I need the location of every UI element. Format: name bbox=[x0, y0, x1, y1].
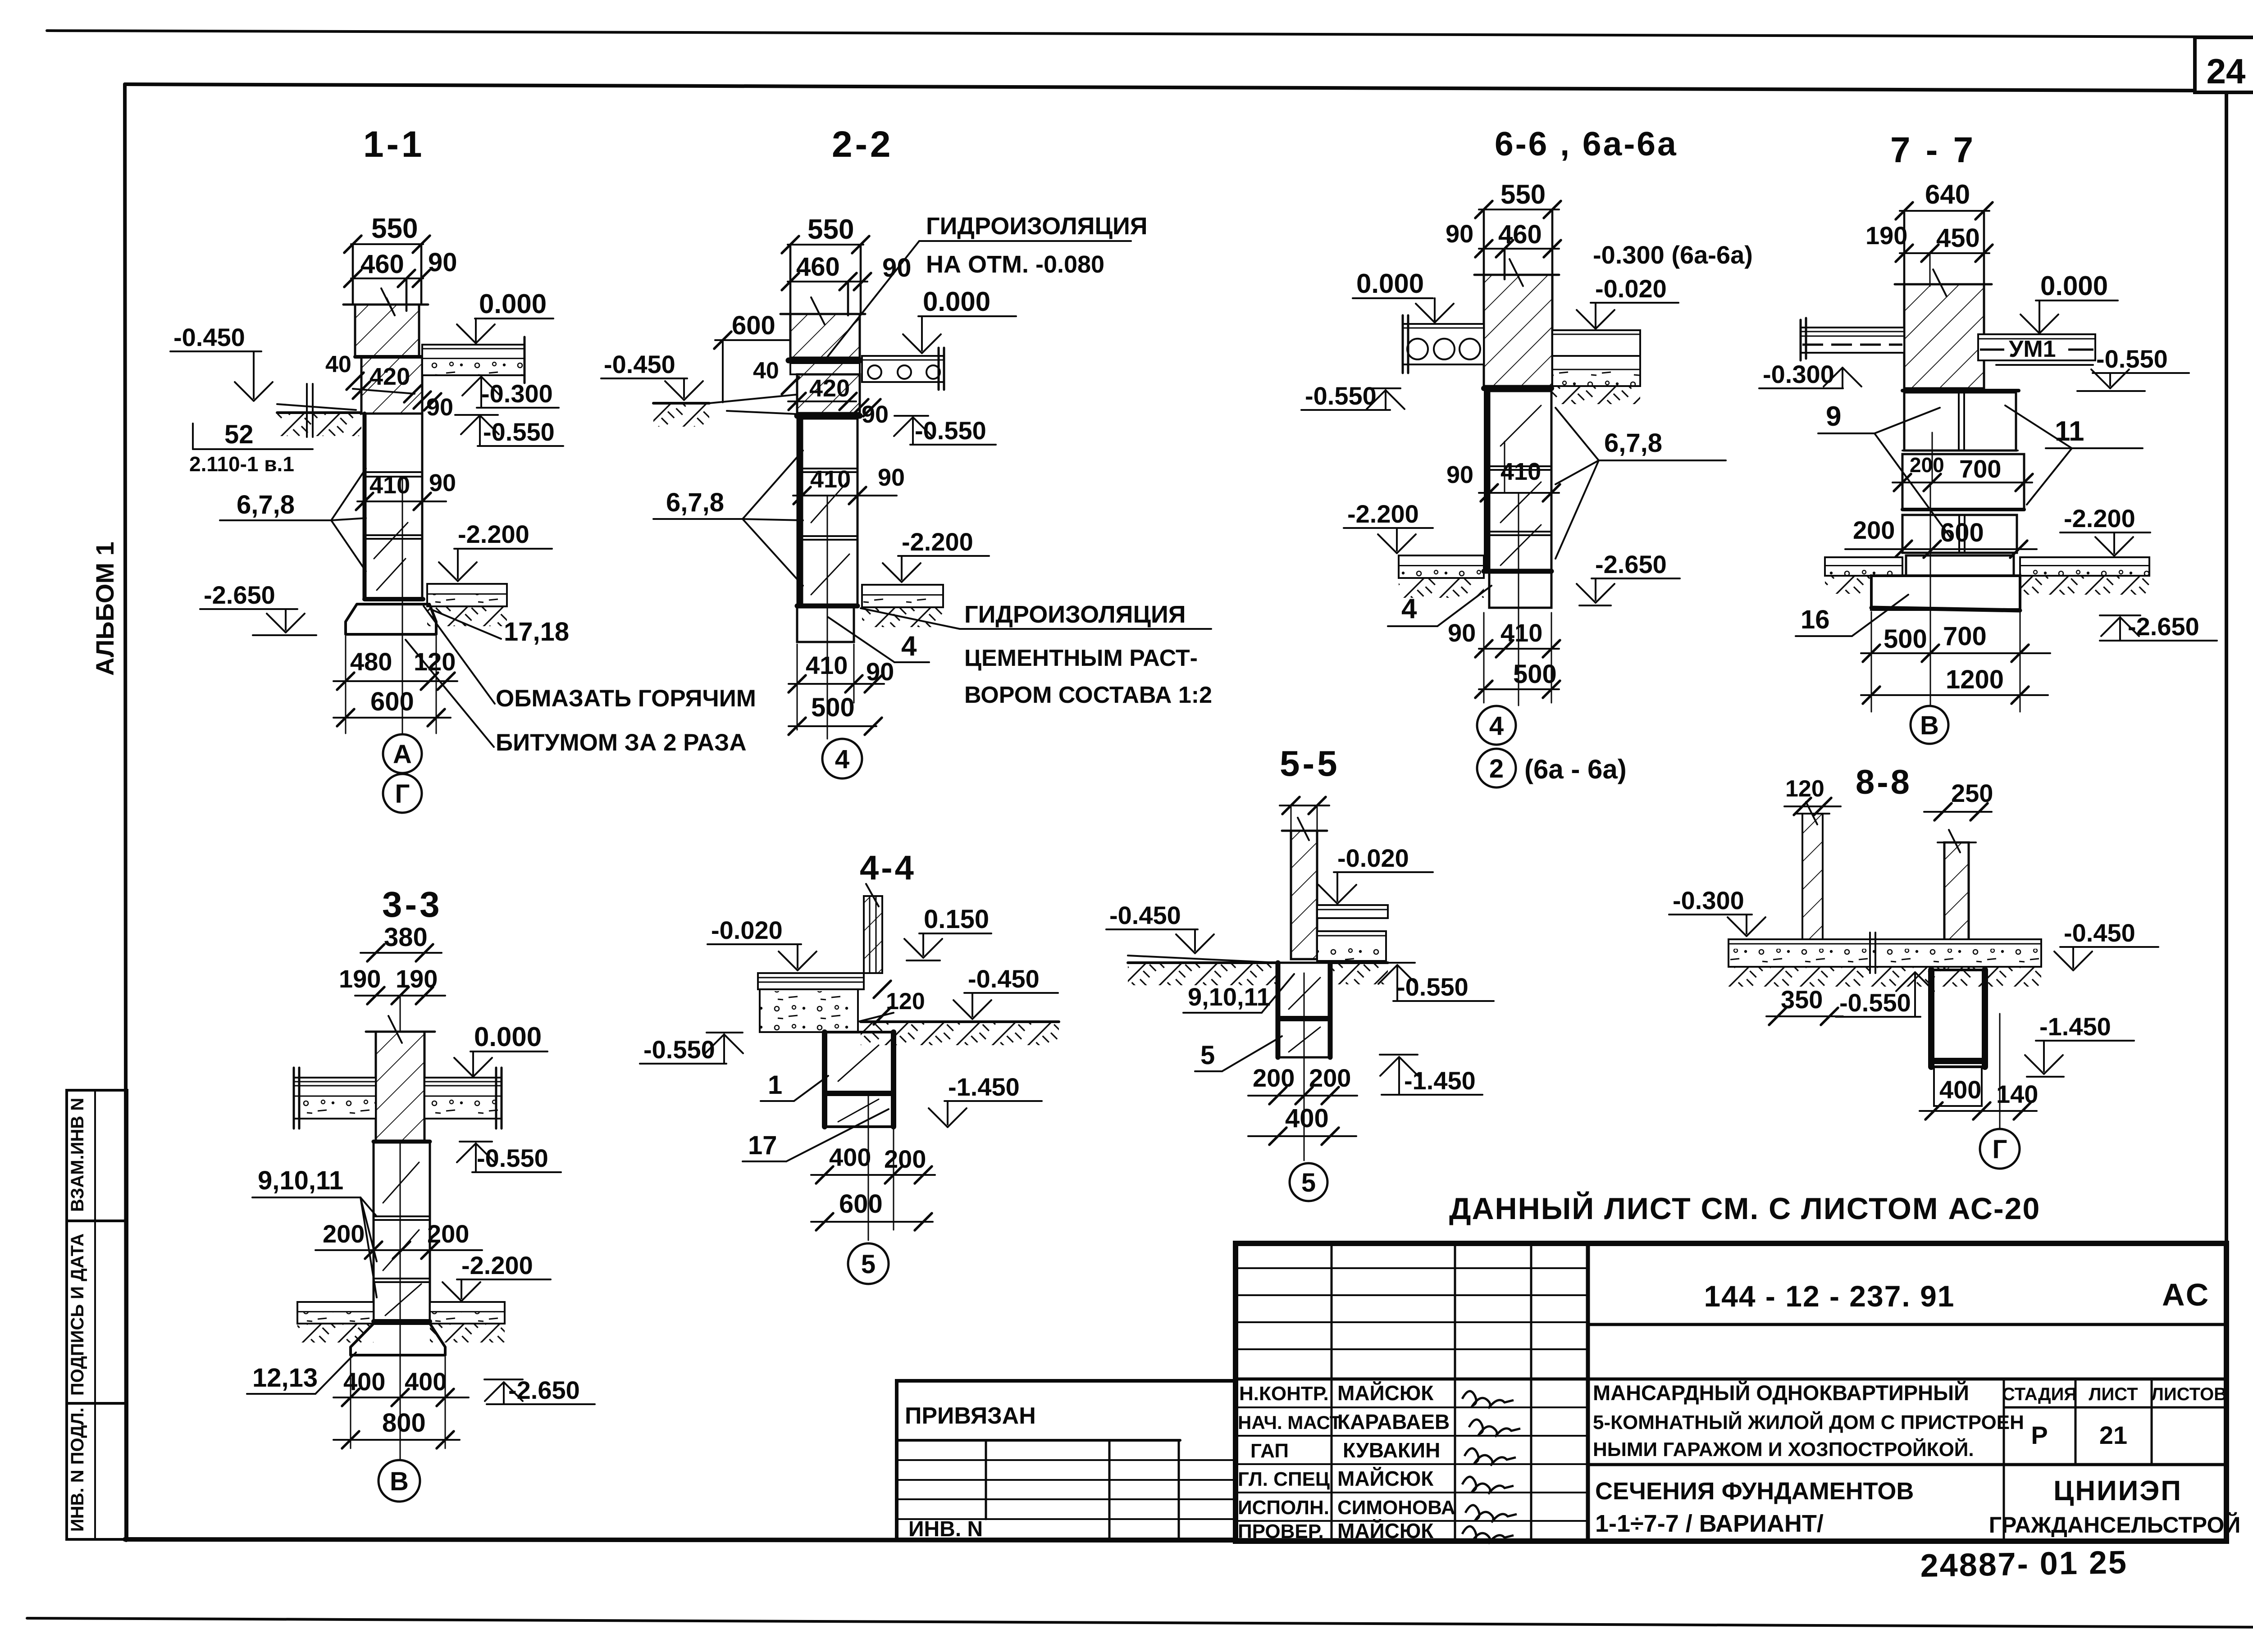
svg-text:190: 190 bbox=[1865, 221, 1907, 250]
svg-text:550: 550 bbox=[371, 213, 418, 244]
svg-text:АЛЬБОМ 1: АЛЬБОМ 1 bbox=[91, 542, 119, 676]
1-1 footing bbox=[346, 599, 436, 634]
1-1 basement floor slab right bbox=[427, 584, 507, 626]
svg-text:600: 600 bbox=[839, 1189, 883, 1219]
5-5 label 9,10,11 bbox=[1183, 974, 1294, 1013]
2-2 level -0.550 bbox=[894, 416, 996, 445]
7-7 precast slab left bbox=[1801, 318, 1904, 360]
title block project name bbox=[1593, 1381, 2024, 1461]
svg-text:ИНВ. N: ИНВ. N bbox=[908, 1517, 983, 1541]
svg-text:40: 40 bbox=[753, 358, 779, 384]
2-2 level -0.450 bbox=[601, 350, 703, 400]
4-4 dim 400 200 bbox=[811, 1129, 935, 1230]
sheet top edge line bbox=[47, 31, 2253, 37]
svg-text:СИМОНОВА: СИМОНОВА bbox=[1337, 1497, 1455, 1519]
6-6 wall bbox=[1474, 259, 1559, 386]
7-7 dim 500 700 bbox=[1861, 612, 2050, 712]
svg-text:-2.200: -2.200 bbox=[2064, 504, 2135, 532]
6-6 dim 90 410 mid bbox=[1446, 441, 1560, 501]
4-4 dim 120 bbox=[874, 981, 925, 1024]
8-8 dim 400 140 bbox=[1920, 1075, 2038, 1120]
svg-text:0.150: 0.150 bbox=[924, 905, 989, 934]
5-5 level -1.450 bbox=[1380, 1055, 1482, 1095]
2-2 basement floor slab right bbox=[862, 585, 943, 627]
svg-text:1-1÷7-7 / ВАРИАНТ/: 1-1÷7-7 / ВАРИАНТ/ bbox=[1595, 1510, 1824, 1537]
svg-text:550: 550 bbox=[807, 214, 854, 245]
svg-text:21: 21 bbox=[2099, 1421, 2127, 1449]
3-3 axis line bbox=[400, 1142, 401, 1460]
7-7 level -2.200 bbox=[2060, 504, 2150, 556]
6-6 dim 90 410 bottom bbox=[1448, 613, 1560, 703]
7-7 level -0.300 bbox=[1759, 360, 1861, 388]
2-2 dim 460 90 bbox=[782, 252, 912, 315]
svg-text:700: 700 bbox=[1959, 455, 2001, 483]
svg-text:МАЙСЮК: МАЙСЮК bbox=[1337, 1519, 1434, 1543]
svg-text:1200: 1200 bbox=[1946, 665, 2004, 694]
svg-text:120: 120 bbox=[886, 988, 925, 1015]
4-4 ground mid notch bbox=[858, 1013, 894, 1022]
svg-text:-0.020: -0.020 bbox=[1337, 844, 1409, 872]
title block right horizontals bbox=[1588, 1324, 2226, 1465]
svg-text:6,7,8: 6,7,8 bbox=[666, 488, 724, 517]
svg-text:ИСПОЛН.: ИСПОЛН. bbox=[1238, 1497, 1329, 1519]
svg-text:0.000: 0.000 bbox=[923, 287, 990, 317]
svg-text:-0.550: -0.550 bbox=[483, 418, 555, 446]
section title 4-4 bbox=[860, 849, 916, 887]
3-3 footing bbox=[351, 1321, 445, 1355]
8-8 dim 250 bbox=[1924, 779, 1993, 820]
svg-text:(6а - 6а): (6а - 6а) bbox=[1524, 754, 1627, 784]
7-7 pier band 600 bbox=[1845, 510, 2037, 558]
svg-text:0.000: 0.000 bbox=[2040, 271, 2108, 301]
svg-text:52: 52 bbox=[224, 420, 254, 449]
8-8 footing lower bbox=[1934, 1067, 1982, 1106]
3-3 level -0.550 bbox=[457, 1142, 561, 1172]
title block stage columns bbox=[2004, 1379, 2152, 1541]
svg-text:-0.550: -0.550 bbox=[1305, 382, 1377, 410]
svg-text:4-4: 4-4 bbox=[860, 849, 916, 887]
svg-text:ГРАЖДАНСЕЛЬСТРОЙ: ГРАЖДАНСЕЛЬСТРОЙ bbox=[1989, 1512, 2241, 1538]
title block doc number 144-12-237.91 bbox=[1704, 1279, 1955, 1313]
title block names bbox=[1337, 1381, 1455, 1543]
5-5 footing bbox=[1278, 963, 1330, 1057]
8-8 level -0.300 bbox=[1669, 886, 1765, 936]
4-4 level -0.450 bbox=[953, 965, 1058, 1019]
6-6 level -0.300 (6а-6а) bbox=[1593, 241, 1753, 269]
svg-text:Н.КОНТР.: Н.КОНТР. bbox=[1239, 1383, 1329, 1405]
8-8 axis line bbox=[1999, 1014, 2001, 1129]
4-4 level -0.020 bbox=[707, 916, 816, 970]
1-1 dim 460 90 bbox=[344, 248, 457, 311]
3-3 label 9,10,11 bbox=[252, 1166, 377, 1297]
svg-text:Г: Г bbox=[395, 779, 410, 809]
handwritten doc number 24887-01 25 bbox=[1920, 1544, 2128, 1584]
1-1 level -0.450 bbox=[170, 323, 273, 401]
5-5 ground left bbox=[1128, 956, 1280, 985]
2-2 waterproofing band 2 bbox=[797, 413, 860, 419]
svg-text:-0.300 (6а-6а): -0.300 (6а-6а) bbox=[1593, 241, 1753, 269]
title block sheet 21 bbox=[2099, 1421, 2127, 1449]
svg-text:-1.450: -1.450 bbox=[2039, 1012, 2111, 1041]
svg-text:ИНВ. N ПОДЛ.: ИНВ. N ПОДЛ. bbox=[68, 1407, 87, 1532]
7-7 dim 640 bbox=[1896, 179, 1993, 284]
svg-text:-0.300: -0.300 bbox=[1763, 360, 1834, 388]
note данный лист см. с листом АС-20 bbox=[1449, 1191, 2040, 1226]
8-8 footing block bbox=[1931, 970, 1985, 1067]
svg-text:5: 5 bbox=[1301, 1168, 1316, 1197]
svg-text:3-3: 3-3 bbox=[382, 884, 442, 924]
svg-text:-0.550: -0.550 bbox=[477, 1144, 548, 1172]
title block left grid bbox=[1236, 1243, 1588, 1541]
svg-text:90: 90 bbox=[426, 394, 453, 421]
2-2 axis circle 4 bbox=[822, 739, 862, 778]
svg-text:11: 11 bbox=[2055, 416, 2084, 447]
4-4 ground right bbox=[861, 1022, 1059, 1045]
svg-text:9,10,11: 9,10,11 bbox=[258, 1166, 343, 1195]
svg-text:460: 460 bbox=[796, 252, 840, 282]
4-4 stud wall bbox=[864, 884, 882, 973]
5-5 axis line bbox=[1304, 973, 1305, 1160]
7-7 label 16 bbox=[1796, 595, 1908, 636]
title block code АС bbox=[2162, 1277, 2210, 1312]
4-4 level 0.150 bbox=[904, 905, 991, 960]
svg-text:-0.300: -0.300 bbox=[481, 379, 553, 408]
svg-text:144 - 12 - 237. 91: 144 - 12 - 237. 91 bbox=[1704, 1279, 1955, 1313]
5-5 dim 400 bbox=[1248, 1104, 1356, 1145]
1-1 wall upper bbox=[343, 288, 428, 357]
svg-text:500: 500 bbox=[1513, 660, 1557, 689]
section title 2-2 bbox=[832, 124, 894, 165]
svg-text:АС: АС bbox=[2162, 1277, 2210, 1312]
svg-text:90: 90 bbox=[1448, 619, 1476, 647]
1-1 dim 550 bbox=[344, 213, 430, 305]
8-8 wall right bbox=[1938, 830, 1976, 970]
1-1 axis circle Г bbox=[383, 774, 422, 813]
svg-text:500: 500 bbox=[811, 693, 855, 722]
svg-text:НАЧ. МАСТ: НАЧ. МАСТ bbox=[1238, 1412, 1341, 1433]
6-6 label 6,7,8 bbox=[1555, 408, 1726, 559]
svg-text:-2.200: -2.200 bbox=[1347, 500, 1419, 528]
svg-text:ГИДРОИЗОЛЯЦИЯ: ГИДРОИЗОЛЯЦИЯ bbox=[926, 213, 1148, 240]
5-5 ground right bbox=[1330, 963, 1388, 984]
title block stage Р bbox=[2031, 1421, 2048, 1449]
svg-text:400: 400 bbox=[343, 1367, 385, 1396]
1-1 dim 40 420 bbox=[325, 351, 421, 402]
1-1 level 0.000 bbox=[457, 289, 553, 343]
svg-text:-0.550: -0.550 bbox=[643, 1035, 715, 1064]
8-8 floor slab bbox=[1729, 933, 2041, 987]
svg-text:140: 140 bbox=[1996, 1080, 2038, 1108]
инв N label bbox=[908, 1517, 983, 1541]
5-5 level -0.450 bbox=[1106, 901, 1214, 953]
svg-text:-0.550: -0.550 bbox=[1839, 988, 1911, 1017]
svg-text:6,7,8: 6,7,8 bbox=[237, 490, 295, 519]
svg-text:КАРАВАЕВ: КАРАВАЕВ bbox=[1337, 1410, 1450, 1434]
svg-text:410: 410 bbox=[369, 472, 410, 499]
svg-text:В: В bbox=[1920, 711, 1939, 740]
7-7 label 9 bbox=[1818, 401, 1951, 538]
svg-text:24887- 01 25: 24887- 01 25 bbox=[1920, 1544, 2128, 1584]
svg-text:Г: Г bbox=[1993, 1135, 2007, 1164]
section title 7-7 bbox=[1890, 130, 1976, 170]
svg-text:ПРОВЕР.: ПРОВЕР. bbox=[1238, 1520, 1324, 1543]
3-3 wall bbox=[366, 1016, 435, 1142]
svg-text:ЦЕМЕНТНЫМ РАСТ-: ЦЕМЕНТНЫМ РАСТ- bbox=[964, 645, 1198, 671]
section title 3-3 bbox=[382, 884, 442, 924]
6-6 level -0.550 bbox=[1301, 382, 1405, 410]
2-2 label 6,7,8 bbox=[653, 451, 803, 586]
1-1 level -0.550 bbox=[455, 415, 563, 446]
6-6 dim 500 bbox=[1475, 660, 1560, 698]
svg-text:-1.450: -1.450 bbox=[948, 1073, 1020, 1101]
svg-text:9,10,11: 9,10,11 bbox=[1188, 983, 1271, 1011]
svg-text:ПРИВЯЗАН: ПРИВЯЗАН bbox=[905, 1403, 1036, 1429]
svg-text:ДАННЫЙ ЛИСТ СМ. С ЛИСТОМ: ДАННЫЙ ЛИСТ СМ. С ЛИСТОМ АС-20 bbox=[1449, 1191, 2040, 1226]
svg-text:400: 400 bbox=[405, 1367, 447, 1396]
6-6 hollow core slab left bbox=[1403, 315, 1484, 373]
svg-text:1-1: 1-1 bbox=[363, 124, 425, 165]
6-6 dim 90 460 bbox=[1446, 219, 1561, 279]
svg-text:200: 200 bbox=[1253, 1064, 1295, 1092]
svg-text:ГЛ. СПЕЦ: ГЛ. СПЕЦ bbox=[1238, 1468, 1330, 1490]
svg-text:-2.650: -2.650 bbox=[1595, 550, 1667, 578]
svg-text:КУВАКИН: КУВАКИН bbox=[1343, 1438, 1440, 1462]
svg-text:600: 600 bbox=[1940, 518, 1984, 547]
svg-text:16: 16 bbox=[1801, 605, 1830, 634]
left margin stamp boxes bbox=[67, 1090, 127, 1539]
1-1 ref 2.110-1 в.1 bbox=[189, 452, 294, 476]
7-7 brick pier course A bbox=[1902, 391, 2019, 451]
svg-text:1: 1 bbox=[768, 1070, 782, 1100]
svg-text:640: 640 bbox=[1925, 179, 1970, 209]
6-6 axis circle 2 (6а-6а) bbox=[1477, 749, 1627, 787]
3-3 dim 400 400 bbox=[333, 1357, 469, 1448]
svg-text:Р: Р bbox=[2031, 1421, 2048, 1449]
4-4 axis circle 5 bbox=[848, 1243, 889, 1284]
svg-text:5-КОМНАТНЫЙ ЖИЛОЙ ДОМ С ПРИСТР: 5-КОМНАТНЫЙ ЖИЛОЙ ДОМ С ПРИСТРОЕН bbox=[1593, 1411, 2024, 1434]
svg-text:ОБМАЗАТЬ ГОРЯЧИМ: ОБМАЗАТЬ ГОРЯЧИМ bbox=[496, 685, 756, 712]
5-5 dim 200 200 bbox=[1248, 1064, 1357, 1104]
svg-text:2: 2 bbox=[1489, 754, 1504, 783]
2-2 level 0.000 bbox=[903, 287, 1016, 353]
4-4 axis line bbox=[868, 1095, 869, 1240]
svg-text:ПОДПИСЬ И ДАТА: ПОДПИСЬ И ДАТА bbox=[68, 1233, 87, 1396]
svg-text:200: 200 bbox=[1309, 1064, 1351, 1092]
svg-text:МАНСАРДНЫЙ ОДНОКВАРТИРНЫЙ: МАНСАРДНЫЙ ОДНОКВАРТИРНЫЙ bbox=[1593, 1381, 1969, 1405]
1-1 axis circle А bbox=[383, 734, 422, 773]
svg-text:0.000: 0.000 bbox=[474, 1022, 542, 1052]
svg-text:-0.550: -0.550 bbox=[1397, 973, 1469, 1001]
1-1 foundation column bbox=[365, 414, 422, 599]
6-6 floor slab right bbox=[1552, 330, 1640, 404]
svg-text:410: 410 bbox=[1500, 458, 1541, 485]
8-8 axis circle Г bbox=[1980, 1129, 2020, 1169]
1-1 level -0.300 bbox=[462, 377, 559, 408]
4-4 floor slab left bbox=[758, 973, 864, 989]
svg-text:НА ОТМ. -0.080: НА ОТМ. -0.080 bbox=[926, 251, 1104, 278]
6-6 axis line bbox=[1518, 493, 1519, 705]
svg-text:5: 5 bbox=[1200, 1041, 1215, 1070]
4-4 footing block bbox=[825, 1032, 894, 1127]
svg-text:ГАП: ГАП bbox=[1250, 1440, 1289, 1462]
8-8 wall left bbox=[1796, 802, 1829, 967]
svg-text:0.000: 0.000 bbox=[479, 289, 547, 319]
svg-text:420: 420 bbox=[809, 375, 850, 402]
svg-text:90: 90 bbox=[428, 248, 457, 277]
svg-text:-2.200: -2.200 bbox=[458, 520, 529, 548]
7-7 basement slab left bbox=[1825, 557, 1902, 594]
6-6 dim 550 bbox=[1475, 179, 1561, 275]
svg-text:НЫМИ ГАРАЖОМ И ХОЗПОСТРОЙКОЙ.: НЫМИ ГАРАЖОМ И ХОЗПОСТРОЙКОЙ. bbox=[1593, 1438, 1974, 1461]
svg-text:-0.450: -0.450 bbox=[2064, 919, 2135, 947]
7-7 pier band 700 bbox=[1893, 432, 2033, 510]
1-1 ground line left bbox=[277, 384, 361, 437]
svg-text:-0.020: -0.020 bbox=[711, 916, 783, 944]
2-2 wall upper bbox=[780, 297, 865, 358]
7-7 level 0.000 bbox=[2020, 271, 2118, 333]
margin label ВЗАМ.ИНВ N bbox=[68, 1098, 87, 1212]
svg-text:800: 800 bbox=[382, 1408, 426, 1438]
2-2 dim 410 90 mid bbox=[793, 464, 905, 504]
6-6 axis circle 4 bbox=[1477, 706, 1516, 745]
1-1 ref 52 bbox=[193, 420, 313, 449]
svg-text:480: 480 bbox=[350, 647, 392, 676]
7-7 pier course D bbox=[1906, 555, 2014, 576]
svg-text:40: 40 bbox=[325, 351, 351, 378]
title block org ЦНИИЭП ГРАЖДАНСЕЛЬСТРОЙ bbox=[1989, 1475, 2241, 1538]
svg-text:МАЙСЮК: МАЙСЮК bbox=[1337, 1467, 1434, 1490]
3-3 level 0.000 bbox=[454, 1022, 547, 1077]
7-7 level -2.650 bbox=[2100, 612, 2217, 641]
привязан block bbox=[897, 1381, 1236, 1541]
3-3 basement slab right bbox=[430, 1302, 505, 1343]
2-2 dim 90 right bbox=[851, 399, 889, 428]
5-5 slab right upper bbox=[1317, 905, 1388, 918]
7-7 level -0.550 bbox=[2077, 345, 2189, 391]
3-3 level -2.200 bbox=[442, 1251, 551, 1301]
5-5 level -0.020 bbox=[1318, 844, 1433, 904]
title block outer border bbox=[1236, 1243, 2226, 1541]
svg-text:ЦНИИЭП: ЦНИИЭП bbox=[2053, 1475, 2182, 1506]
7-7 footing slab bbox=[1871, 576, 2020, 610]
svg-text:500: 500 bbox=[1884, 624, 1927, 654]
2-2 dim 550 bbox=[782, 214, 869, 314]
svg-text:17: 17 bbox=[748, 1131, 777, 1160]
3-3 floor slab left bbox=[294, 1068, 376, 1129]
svg-text:ГИДРОИЗОЛЯЦИЯ: ГИДРОИЗОЛЯЦИЯ bbox=[964, 601, 1186, 628]
svg-text:9: 9 bbox=[1826, 401, 1841, 432]
section title 1-1 bbox=[363, 124, 425, 165]
title block sheet name сечения фундаментов bbox=[1595, 1478, 1914, 1537]
svg-text:-0.300: -0.300 bbox=[1673, 886, 1744, 915]
svg-text:400: 400 bbox=[1939, 1075, 1981, 1104]
svg-text:СЕЧЕНИЯ ФУНДАМЕНТОВ: СЕЧЕНИЯ ФУНДАМЕНТОВ bbox=[1595, 1478, 1914, 1505]
8-8 dim 120 bbox=[1784, 776, 1841, 815]
section title 8-8 bbox=[1856, 763, 1912, 801]
svg-text:-1.450: -1.450 bbox=[1404, 1066, 1476, 1095]
3-3 dim 800 bbox=[333, 1408, 460, 1448]
svg-text:-0.020: -0.020 bbox=[1595, 274, 1667, 303]
5-5 wall bbox=[1280, 797, 1329, 959]
2-2 waterproofing band bbox=[789, 358, 860, 364]
svg-text:А: А bbox=[393, 740, 412, 769]
5-5 level -0.550 bbox=[1378, 963, 1494, 1001]
6-6 footing pad bbox=[1484, 571, 1551, 608]
3-3 dim 380 bbox=[360, 923, 442, 961]
svg-text:400: 400 bbox=[1285, 1104, 1329, 1133]
1-1 level -2.200 bbox=[439, 520, 552, 581]
svg-text:-0.450: -0.450 bbox=[604, 350, 675, 378]
svg-text:6-6 , 6а-6а: 6-6 , 6а-6а bbox=[1495, 125, 1678, 163]
svg-text:90: 90 bbox=[1446, 461, 1473, 488]
8-8 level -1.450 bbox=[2025, 1012, 2134, 1077]
svg-text:400: 400 bbox=[829, 1143, 871, 1171]
привязан label bbox=[905, 1403, 1036, 1429]
svg-text:ЛИСТОВ: ЛИСТОВ bbox=[2151, 1384, 2227, 1404]
svg-text:700: 700 bbox=[1943, 622, 1987, 651]
2-2 foundation column bbox=[799, 419, 857, 606]
4-4 level -1.450 bbox=[929, 1073, 1042, 1127]
svg-text:600: 600 bbox=[732, 311, 775, 340]
svg-text:7 - 7: 7 - 7 bbox=[1890, 130, 1976, 170]
section title 6-6, 6а-6а bbox=[1495, 125, 1678, 163]
margin label ИНВ. N ПОДЛ. bbox=[68, 1407, 87, 1532]
2-2 level -2.200 bbox=[883, 528, 989, 582]
8-8 level -0.550 bbox=[1836, 972, 1934, 1017]
svg-text:410: 410 bbox=[810, 466, 851, 493]
svg-text:190: 190 bbox=[339, 965, 381, 993]
4-4 label 1 bbox=[761, 1070, 828, 1101]
title block signatures bbox=[1462, 1391, 1520, 1543]
1-1 floor slab right bbox=[422, 337, 524, 383]
svg-text:-2.200: -2.200 bbox=[461, 1251, 533, 1279]
svg-text:90: 90 bbox=[1446, 219, 1473, 248]
svg-text:МАЙСЮК: МАЙСЮК bbox=[1337, 1381, 1434, 1405]
svg-text:ВОРОМ СОСТАВА 1:2: ВОРОМ СОСТАВА 1:2 bbox=[964, 682, 1212, 708]
svg-text:-0.550: -0.550 bbox=[2096, 345, 2168, 373]
svg-text:В: В bbox=[390, 1467, 409, 1496]
2-2 note гидроизоляция на отм.-0.080 bbox=[825, 213, 1148, 360]
svg-text:200: 200 bbox=[884, 1145, 926, 1173]
1-1 label 6,7,8 bbox=[220, 469, 366, 571]
sheet bottom edge line bbox=[27, 1618, 2253, 1627]
2-2 hollow core slab right bbox=[862, 348, 944, 390]
3-3 label 12,13 bbox=[247, 1352, 356, 1394]
svg-text:120: 120 bbox=[1785, 776, 1824, 802]
svg-text:4: 4 bbox=[1401, 593, 1417, 624]
7-7 basement slab right bbox=[2020, 557, 2149, 595]
6-6 waterproofing band bbox=[1484, 386, 1551, 391]
title block role labels bbox=[1238, 1383, 1341, 1543]
7-7 axis line bbox=[1930, 484, 1931, 706]
svg-text:8-8: 8-8 bbox=[1856, 763, 1912, 801]
3-3 foundation column bbox=[374, 1142, 430, 1321]
svg-text:СТАДИЯ: СТАДИЯ bbox=[2002, 1384, 2077, 1404]
4-4 concrete underlay bbox=[760, 989, 858, 1032]
sheet number box 24 bbox=[2195, 37, 2253, 92]
2-2 note гидроизоляция цементным раствором bbox=[861, 601, 1212, 708]
svg-text:460: 460 bbox=[360, 250, 404, 279]
svg-text:4: 4 bbox=[1489, 711, 1504, 741]
1-1 label 17,18 bbox=[430, 609, 569, 646]
svg-text:90: 90 bbox=[878, 464, 905, 491]
6-6 label 4 bbox=[1388, 586, 1491, 626]
svg-text:2.110-1 в.1: 2.110-1 в.1 bbox=[189, 452, 294, 476]
svg-text:2-2: 2-2 bbox=[832, 124, 894, 165]
7-7 wall bbox=[1895, 269, 1992, 388]
2-2 footing pad bbox=[797, 606, 857, 642]
svg-text:200: 200 bbox=[1853, 516, 1895, 544]
